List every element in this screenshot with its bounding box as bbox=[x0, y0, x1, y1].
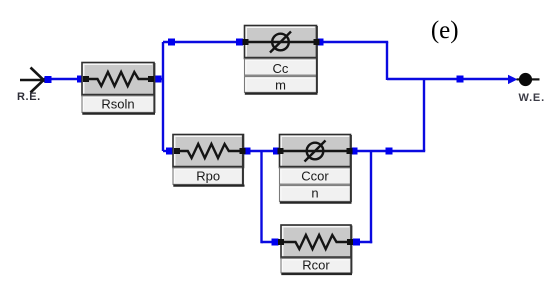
wire R.E. to Rsoln bbox=[48, 78, 84, 80]
svg-text:R.E.: R.E. bbox=[17, 91, 41, 103]
svg-text:m: m bbox=[275, 78, 286, 93]
wire mid riser up bbox=[423, 79, 425, 151]
svg-text:(e): (e) bbox=[431, 17, 459, 44]
wire Rpo to Ccor bbox=[242, 150, 281, 152]
svg-text:Rcor: Rcor bbox=[302, 258, 330, 273]
component box Rpo bbox=[173, 135, 245, 186]
component box Cc bbox=[245, 26, 318, 94]
node square Rcor left bbox=[272, 239, 279, 246]
resistor Rpo symbol bbox=[176, 144, 241, 158]
terminal W.E. dot bbox=[519, 73, 532, 86]
wire top branch right bbox=[315, 41, 388, 43]
node square middle right bbox=[386, 148, 393, 155]
terminal R.E. arrow bbox=[20, 68, 46, 93]
resistor Rcor symbol bbox=[284, 235, 348, 249]
node square Ccor right bbox=[351, 148, 358, 155]
svg-text:Cc: Cc bbox=[273, 61, 289, 76]
node square Rsoln right bbox=[155, 76, 162, 83]
svg-text:Rpo: Rpo bbox=[196, 169, 220, 184]
resistor Rsoln symbol bbox=[85, 72, 151, 86]
node square Ccor left bbox=[273, 148, 280, 155]
wire Rsoln right to riser bbox=[152, 78, 164, 80]
wire output line bbox=[387, 78, 513, 80]
wire left riser node1 bbox=[162, 42, 164, 151]
CPE Cc symbol bbox=[247, 41, 314, 43]
output arrowhead bbox=[508, 75, 518, 84]
pin squares Rsoln bbox=[83, 76, 89, 82]
pin squares Rpo bbox=[174, 148, 180, 154]
node square Cc left bbox=[236, 39, 243, 46]
wire bottom to Rcor bbox=[262, 241, 284, 243]
svg-text:Rsoln: Rsoln bbox=[101, 97, 134, 112]
component box Ccor bbox=[280, 135, 352, 203]
wire top corner down bbox=[386, 42, 388, 80]
wire bottom left riser bbox=[260, 151, 262, 243]
wire Ccor right to mid corner bbox=[349, 150, 425, 152]
node square Rcor right bbox=[353, 239, 360, 246]
node square top branch bbox=[168, 39, 175, 46]
svg-text:W.E.: W.E. bbox=[519, 92, 545, 104]
wire Rcor to right riser bbox=[349, 241, 372, 243]
node square Rpo left bbox=[166, 148, 173, 155]
wire stub to W.E. bbox=[517, 78, 520, 80]
node square Rsoln left bbox=[77, 76, 84, 83]
pin squares Cc bbox=[243, 39, 249, 45]
wire bottom right riser bbox=[370, 151, 372, 243]
CPE Ccor symbol bbox=[282, 150, 348, 152]
wire middle branch to Rpo bbox=[163, 150, 175, 152]
wire top branch left bbox=[163, 41, 246, 43]
terminal W.E. stub right bbox=[532, 78, 540, 80]
component box Rsoln bbox=[82, 63, 155, 114]
node square output line bbox=[457, 76, 464, 83]
svg-text:n: n bbox=[311, 186, 318, 201]
node square Rpo right bbox=[244, 148, 251, 155]
node square Cc right bbox=[317, 39, 324, 46]
pin squares Ccor bbox=[278, 148, 284, 154]
svg-text:Ccor: Ccor bbox=[301, 169, 329, 184]
node square at R.E. bbox=[45, 76, 52, 83]
component box Rcor bbox=[281, 225, 352, 274]
pin squares Rcor bbox=[278, 239, 284, 245]
